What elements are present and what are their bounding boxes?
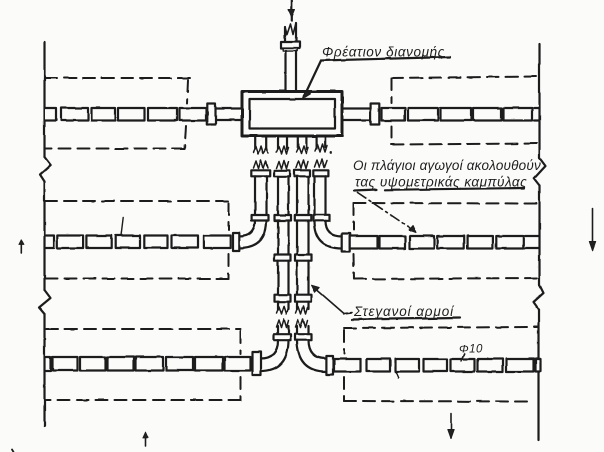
pipe row3 left segment 7 [225, 357, 251, 371]
pipe row3 left stub [46, 357, 51, 371]
pipe row2 right segment 6 [496, 236, 523, 249]
joint tick row2 right [398, 242, 400, 249]
svg-text:Οι πλάγιοι αγωγοί ακολουθούν: Οι πλάγιοι αγωγοί ακολουθούν [353, 158, 541, 173]
field zone row2 left dashed [45, 201, 230, 279]
pipe row2 left segment 4 [144, 236, 167, 249]
break squiggle above flange riser 1 [254, 160, 269, 169]
svg-text:τας υψομετρικάς καμπύλας: τας υψομετρικάς καμπύλας [355, 175, 527, 190]
riser 1 body [255, 176, 267, 215]
riser 3 lower body b [297, 261, 309, 295]
leader line to box label [305, 61, 322, 96]
pipe row3 right end piece [536, 359, 541, 372]
break squiggle riser 3 b [296, 319, 308, 328]
pipe row2 left segment 6 [204, 236, 231, 249]
pipe row3 left segment 3 [108, 357, 134, 371]
stray ink dot [330, 152, 332, 154]
flange riser 2 third [275, 255, 291, 261]
break squiggle stub 3 [296, 146, 308, 154]
pipe row1 right segment 3 [441, 108, 472, 121]
pipe row2 left segment 2 [86, 236, 111, 249]
pipe row2 right segment 3 [410, 236, 434, 249]
flange riser 4 second [314, 215, 330, 221]
pipe row2 left stub [46, 236, 54, 249]
pipe row2 left segment 3 [115, 236, 140, 249]
pipe row2 right segment 2 [380, 236, 406, 249]
riser 2 stub above flange [278, 326, 289, 334]
pipe row3 right segment 5 [451, 359, 475, 372]
label underline tight joints [352, 318, 460, 320]
flange riser 2 fourth [275, 295, 291, 302]
pipe row1 right segment 5 [504, 108, 533, 121]
pipe row2 right segment 5 [468, 236, 493, 249]
svg-text:Φρέατιον διανομής: Φρέατιον διανομής [322, 45, 445, 60]
pipe row1 right end piece [534, 108, 539, 121]
boundary right line middle [538, 186, 540, 286]
flange riser 2 top [274, 170, 290, 176]
flange riser 3 top [295, 170, 311, 176]
flange riser 2 fifth [274, 334, 291, 340]
pipe row2 right segment 1 [350, 236, 378, 249]
pipe row3 right segment 6 [478, 359, 504, 372]
flange riser 1 second [252, 215, 269, 221]
break mark right 1 [534, 158, 546, 186]
arrow row3 mid down [450, 414, 452, 438]
pipe row3 right segment 4 [424, 359, 448, 372]
pipe row3 left segment 1 [53, 357, 78, 371]
svg-text:Στεγανοί αρμοί: Στεγανοί αρμοί [353, 304, 455, 319]
flange riser 1 top [251, 170, 270, 176]
break squiggle above flange riser 4 [315, 159, 328, 168]
supply arrow top [291, 0, 293, 21]
break mark left 1 [40, 157, 51, 182]
arrow right margin down [592, 209, 594, 251]
elbow riser 2 to row3 left [260, 340, 288, 371]
field zone row2 right dashed [354, 203, 541, 279]
pipe row1 left stub [45, 108, 56, 121]
field zone row1 left dashed [45, 78, 190, 149]
elbow riser 3 to row3 right [297, 340, 326, 372]
arrow left margin [20, 241, 22, 253]
hand tick row3 right [395, 371, 398, 378]
break squiggle riser 2 b [277, 319, 289, 328]
riser stub 1 under box [255, 136, 266, 149]
pipe row3 right segment 2 [367, 359, 391, 372]
pipe row2 left segment 1 [57, 236, 83, 249]
pipe row1 right segment 1 [382, 108, 406, 121]
riser 3 break stub below [297, 302, 309, 309]
riser 3 body [297, 176, 309, 215]
boundary right line lower [537, 309, 539, 440]
riser stub 3 under box [298, 136, 307, 149]
pipe row3 right segment 7 [507, 359, 534, 372]
leader dash-dot to lateral pipes note [358, 193, 414, 231]
break squiggle riser 3 a [296, 306, 308, 314]
pipe row1 into box left [216, 109, 243, 121]
pipe row3 right segment 3 [396, 359, 420, 372]
pipe row1 left segment 4 [148, 108, 177, 121]
coupling row3 left [253, 352, 262, 375]
arrow bottom margin [145, 434, 147, 447]
pipe row1 left segment 1 [61, 108, 88, 121]
riser 2 lower body [278, 221, 289, 255]
break squiggle stub 4 [315, 144, 327, 152]
distribution box outer [242, 92, 342, 137]
field zone row3 right dashed [344, 327, 538, 402]
label underline box [321, 57, 450, 61]
break squiggle riser 2 a [277, 306, 289, 314]
flange riser 3 second [295, 215, 312, 221]
flange riser 4 top [313, 170, 328, 176]
boundary left line middle [43, 182, 45, 291]
pipe row2 right end piece [525, 236, 539, 249]
coupling row3 right [326, 356, 333, 375]
elbow riser 4 to row2 right [315, 221, 342, 249]
coupling row1 right [371, 104, 380, 125]
riser stub 4 under box [317, 136, 326, 149]
flange riser 2 second [275, 215, 292, 221]
riser 2 break stub below [278, 302, 289, 309]
break mark left 2 [39, 290, 51, 314]
pipe row2 left segment 5 [172, 236, 199, 249]
break squiggle above flange riser 3 [296, 160, 308, 169]
pipe row3 left segment 4 [136, 357, 164, 371]
riser 2 body [278, 176, 289, 215]
riser 4 body [315, 176, 326, 215]
supply pipe flange [281, 42, 300, 49]
svg-text:Φ10: Φ10 [459, 344, 483, 356]
pipe row3 left segment 5 [166, 357, 193, 371]
pipe row1 left segment 5 [180, 108, 207, 121]
break squiggle stub 1 [254, 146, 269, 154]
break squiggle above flange riser 2 [277, 160, 289, 169]
elbow riser 1 to row2 left [239, 221, 267, 249]
hand tick row2 left [121, 218, 123, 236]
riser stub 2 under box [278, 136, 287, 149]
break mark right 2 [534, 285, 544, 309]
coupling row1 left [207, 104, 215, 125]
pipe row1 right segment 4 [473, 108, 502, 121]
boundary left line upper [43, 42, 45, 157]
pipe row3 left segment 2 [80, 357, 106, 371]
pipe row2 right segment 4 [437, 236, 464, 249]
boundary left line lower [43, 314, 45, 426]
pipe row1 right from box [342, 109, 371, 121]
supply pipe body [286, 51, 297, 92]
pipe row1 right segment 2 [408, 108, 438, 121]
break squiggle stub 2 [277, 146, 289, 154]
flange riser 3 fourth [295, 295, 312, 302]
field zone row3 left dashed [46, 329, 241, 400]
riser 3 lower body [297, 221, 309, 255]
label tick phi10 [461, 354, 464, 362]
label underline note line2 [354, 188, 524, 191]
riser 3 stub above flange [297, 326, 309, 334]
leader to tight joints label [314, 287, 353, 314]
coupling row2 right [342, 234, 350, 252]
field zone row1 right dashed [392, 77, 540, 145]
distribution box inner [250, 99, 336, 129]
supply pipe top with break squiggle [285, 23, 296, 42]
pipe row1 left segment 2 [92, 108, 116, 121]
stray mark bottom left [12, 450, 14, 452]
riser 2 lower body b [278, 261, 289, 295]
pipe row1 left segment 3 [118, 108, 145, 121]
flange riser 3 fifth [295, 334, 312, 340]
flange riser 3 third [295, 255, 312, 261]
boundary right line upper [538, 44, 540, 158]
pipe row3 left segment 6 [195, 357, 223, 371]
coupling row2 left [233, 233, 239, 251]
pipe row3 right segment 1 [334, 359, 361, 372]
